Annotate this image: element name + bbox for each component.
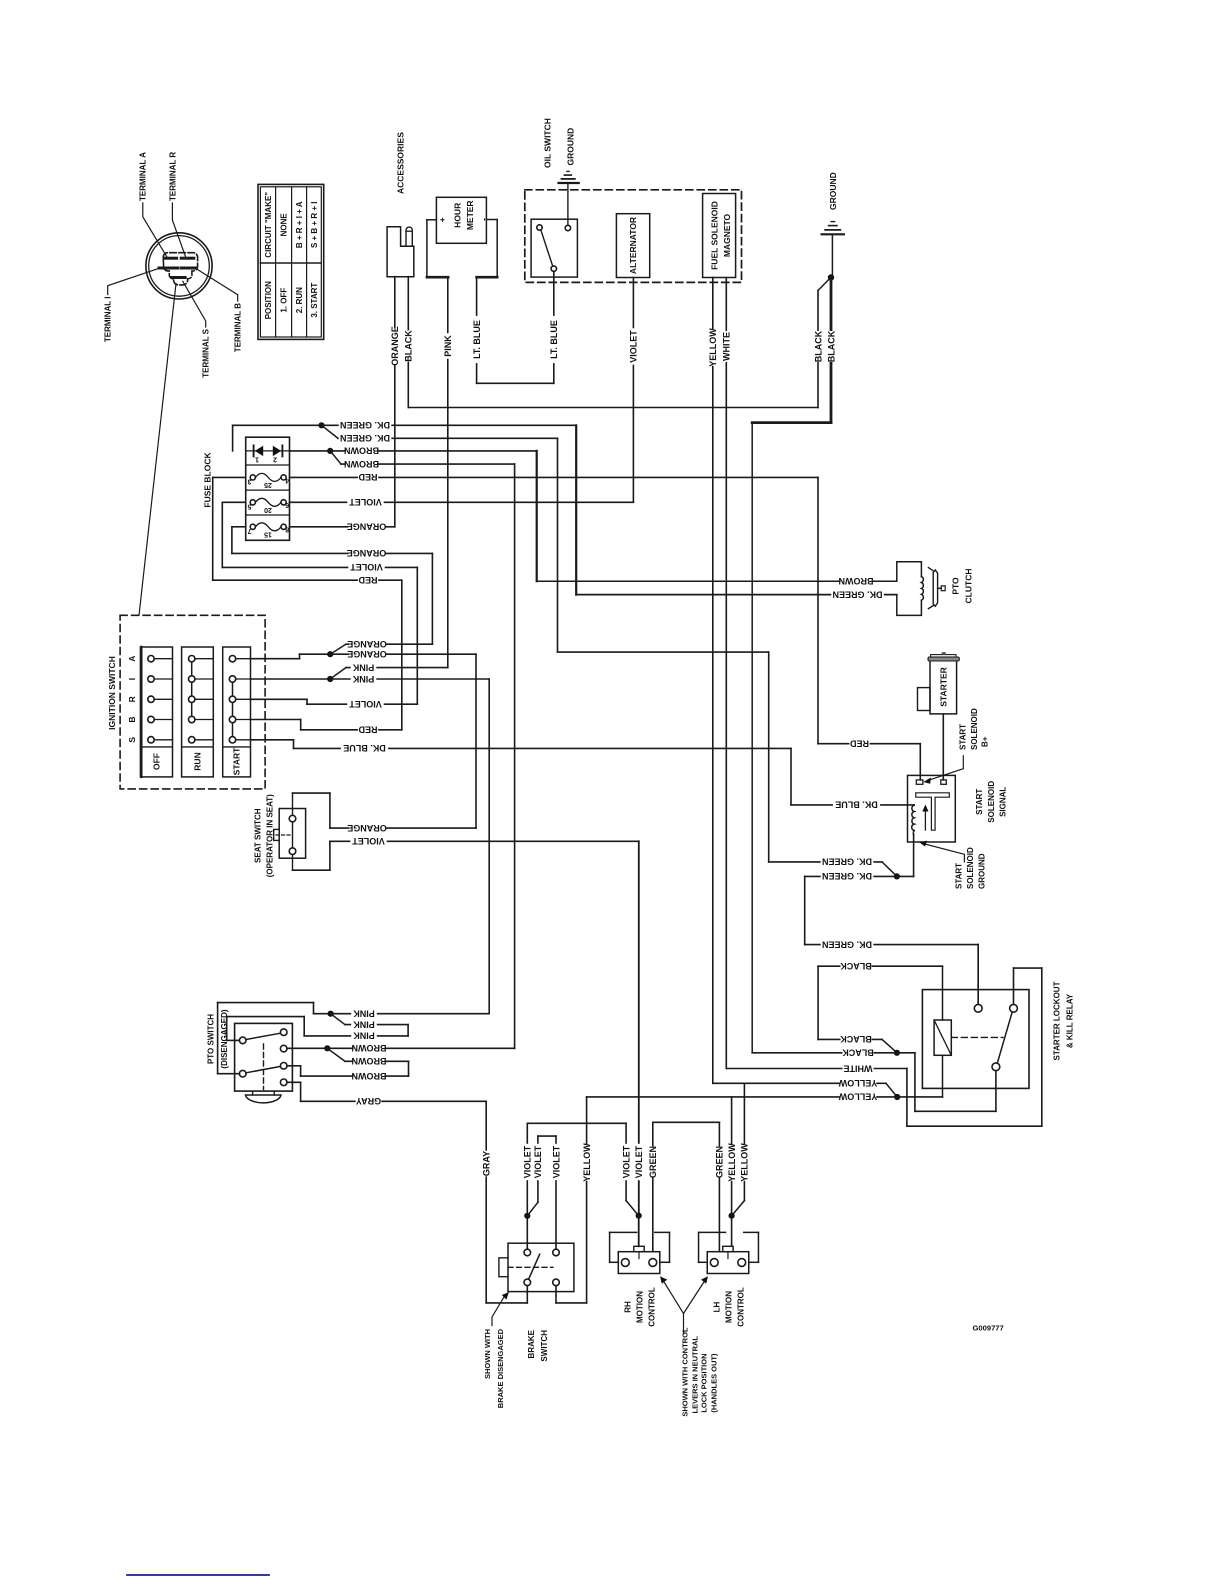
terminal R blade (181, 257, 194, 260)
svg-text:VIOLET: VIOLET (629, 330, 639, 363)
footer rule (127, 1574, 269, 1576)
START circuit connector (232, 679, 234, 740)
svg-text:DK. GREEN: DK. GREEN (822, 857, 872, 867)
svg-text:BLACK: BLACK (813, 330, 823, 362)
svg-text:PTO: PTO (950, 577, 960, 595)
svg-text:+: + (437, 217, 447, 222)
OFF column (140, 647, 172, 777)
svg-text:OIL SWITCH: OIL SWITCH (542, 118, 552, 168)
svg-text:B+: B+ (980, 736, 989, 747)
wire YELLOW fuel solenoid down (712, 278, 714, 1084)
svg-text:GROUND: GROUND (565, 128, 575, 166)
svg-text:B + R + I + A: B + R + I + A (295, 201, 304, 248)
svg-text:YELLOW: YELLOW (838, 1092, 877, 1102)
svg-text:VIOLET: VIOLET (523, 1145, 533, 1178)
wire starter to solenoid (942, 714, 944, 780)
seat switch box (279, 809, 305, 859)
fuse 25A (250, 475, 255, 480)
diode pair row (246, 450, 290, 452)
label TERMINAL A (139, 152, 148, 201)
svg-text:SWITCH: SWITCH (540, 1330, 549, 1362)
svg-text:METER: METER (465, 200, 475, 230)
labels RH / LH motion control (623, 1301, 632, 1313)
svg-text:5: 5 (247, 502, 251, 509)
wire DK. GREEN to solenoid ground junction (769, 861, 882, 863)
wire BROWN diode row (290, 450, 331, 452)
svg-text:R: R (127, 696, 137, 702)
svg-text:20: 20 (264, 506, 272, 513)
svg-text:SIGNAL: SIGNAL (998, 787, 1007, 817)
svg-text:RED: RED (358, 725, 378, 735)
svg-text:ORANGE: ORANGE (347, 639, 387, 649)
wire ORANGE fuse 15A (232, 526, 246, 528)
RUN column (182, 647, 214, 777)
starter side block (918, 688, 931, 711)
svg-text:(OPERATOR IN SEAT): (OPERATOR IN SEAT) (265, 794, 274, 877)
svg-text:WHITE: WHITE (722, 332, 732, 361)
wire PINK ignition I (251, 678, 331, 680)
brake contact BL (524, 1279, 531, 1286)
svg-text:1: 1 (255, 455, 259, 462)
svg-text:BLACK: BLACK (404, 330, 414, 362)
brake contact TR (553, 1249, 560, 1256)
junction black (894, 1050, 900, 1056)
svg-text:CLUTCH: CLUTCH (963, 569, 973, 604)
label TERMINAL S (202, 328, 211, 377)
svg-text:S: S (127, 737, 137, 743)
wire BROWN 2 to PTO switch (330, 451, 341, 464)
svg-text:LH: LH (712, 1301, 721, 1312)
wire WHITE to relay contact B (726, 1068, 907, 1070)
junction brown pto (324, 1045, 330, 1051)
svg-text:PINK: PINK (353, 1019, 375, 1029)
brake switch tab (499, 1258, 508, 1277)
brake switch arm (529, 1254, 540, 1279)
svg-text:BLACK: BLACK (840, 1034, 872, 1044)
svg-text:YELLOW: YELLOW (708, 328, 718, 367)
svg-text:RED: RED (358, 472, 378, 482)
label TERMINAL B (234, 303, 243, 352)
RH motion control (609, 1232, 611, 1262)
svg-text:RUN: RUN (193, 752, 203, 770)
label SEAT SWITCH (OPERATOR IN SEAT) (254, 808, 263, 863)
pto contact L2 (239, 1070, 246, 1077)
svg-text:PINK: PINK (352, 674, 374, 684)
oil switch box (531, 219, 577, 277)
svg-text:RED: RED (850, 738, 870, 748)
svg-text:G009777: G009777 (973, 1324, 1004, 1333)
svg-text:ORANGE: ORANGE (390, 326, 400, 366)
svg-text:VIOLET: VIOLET (551, 1145, 561, 1178)
start solenoid box (908, 775, 956, 842)
svg-text:GRAY: GRAY (481, 1151, 491, 1176)
label START SOLENOID B+ (959, 724, 968, 750)
svg-text:BROWN: BROWN (352, 1071, 387, 1081)
relay contact B (1010, 1004, 1018, 1012)
wire LT. BLUE oil switch (553, 271, 555, 383)
svg-text:GREEN: GREEN (648, 1146, 658, 1178)
hour meter wire bracket (427, 219, 437, 221)
terminal I blade (159, 267, 178, 270)
wire ORANGE accessories to fuse (394, 277, 396, 527)
svg-text:& KILL RELAY: & KILL RELAY (1065, 993, 1074, 1048)
svg-text:CONTROL: CONTROL (647, 1287, 656, 1327)
svg-text:B: B (127, 716, 137, 722)
svg-text:MOTION: MOTION (635, 1291, 644, 1323)
junction yellow (894, 1094, 900, 1100)
relay contact A (974, 1004, 982, 1012)
brake leader + labels (492, 1295, 506, 1326)
junction brown (327, 448, 333, 454)
svg-text:CIRCUIT "MAKE": CIRCUIT "MAKE" (264, 192, 273, 258)
label START SOLENOID GROUND (955, 863, 964, 889)
label TERMINAL I (104, 297, 113, 343)
V leader to note (663, 1280, 684, 1335)
ignition switch dashed box (120, 615, 265, 789)
RUN circuit connector (191, 659, 193, 720)
svg-text:BROWN: BROWN (352, 1043, 387, 1053)
wire PINK pto 2 (331, 1014, 345, 1025)
pto switch button (252, 1091, 254, 1095)
fuse block label (202, 452, 212, 508)
pto switch dashed centerline (263, 1044, 265, 1090)
svg-text:GREEN: GREEN (715, 1146, 725, 1178)
junction rh violet (636, 1213, 642, 1219)
pto bracket L1 (227, 1039, 240, 1041)
LH motion control (698, 1232, 700, 1262)
svg-text:LOCK POSITION: LOCK POSITION (700, 1354, 709, 1413)
svg-text:RH: RH (623, 1301, 632, 1313)
svg-text:POSITION: POSITION (264, 281, 273, 319)
pto arm 2 (246, 1066, 281, 1072)
svg-text:START: START (232, 747, 242, 776)
svg-text:PTO SWITCH: PTO SWITCH (207, 1014, 216, 1064)
svg-text:YELLOW: YELLOW (838, 1078, 877, 1088)
wire DK. BLUE ignition S (251, 739, 294, 741)
terminal A blade (165, 257, 177, 260)
svg-text:BRAKE: BRAKE (527, 1329, 536, 1358)
svg-text:S + B + R + I: S + B + R + I (310, 202, 319, 248)
svg-text:DK. GREEN: DK. GREEN (822, 939, 872, 949)
svg-text:VIOLET: VIOLET (350, 562, 383, 572)
svg-text:BROWN: BROWN (344, 459, 379, 469)
wire GRAY pto (287, 1081, 301, 1083)
wire solenoid ground (912, 831, 915, 836)
leader line from connector to ignition switch box (139, 284, 176, 616)
svg-text:STARTER: STARTER (939, 667, 949, 707)
ignition row letters (127, 656, 137, 662)
pto contact R2 (280, 1045, 287, 1052)
svg-text:SEAT SWITCH: SEAT SWITCH (254, 808, 263, 863)
svg-text:GROUND: GROUND (828, 172, 838, 210)
svg-text:ACCESSORIES: ACCESSORIES (395, 132, 405, 194)
note SHOWN WITH CONTROL LEVERS ... (681, 1327, 690, 1417)
pto arm 1 (246, 1033, 281, 1039)
svg-text:BRAKE DISENGAGED: BRAKE DISENGAGED (496, 1328, 505, 1408)
solenoid coil (912, 805, 914, 830)
svg-text:ORANGE: ORANGE (347, 649, 387, 659)
svg-text:VIOLET: VIOLET (352, 836, 385, 846)
wire BROWN pto 3 (287, 1065, 301, 1067)
relay contact C (992, 1063, 1000, 1071)
svg-text:TERMINAL I: TERMINAL I (104, 297, 113, 343)
fuse 15A (250, 524, 255, 529)
ground above oil switch (567, 183, 569, 225)
wire BLACK relay coil (818, 965, 942, 967)
svg-text:PINK: PINK (443, 335, 453, 357)
seat switch contact top (289, 815, 296, 822)
brake switch box (508, 1243, 574, 1291)
wire PINK pto 3 (304, 1035, 408, 1037)
svg-text:STARTER LOCKOUT: STARTER LOCKOUT (1052, 981, 1061, 1060)
seat switch tab (274, 829, 280, 840)
wire PINK pto 1 (314, 1013, 490, 1015)
svg-text:LT. BLUE: LT. BLUE (549, 320, 559, 359)
svg-text:ALTERNATOR: ALTERNATOR (628, 217, 638, 274)
svg-text:I: I (127, 678, 137, 680)
svg-text:SOLENOID: SOLENOID (970, 708, 979, 750)
svg-text:6: 6 (285, 501, 289, 508)
brake contact BR (553, 1279, 560, 1286)
svg-text:TERMINAL A: TERMINAL A (139, 152, 148, 201)
wire PINK hour meter down (447, 277, 449, 667)
wire WHITE fuel solenoid down (725, 278, 727, 1069)
engine dashed box (525, 190, 742, 283)
svg-text:ORANGE: ORANGE (347, 548, 387, 558)
seat switch wires (293, 792, 330, 794)
svg-text:VIOLET: VIOLET (621, 1145, 631, 1178)
svg-text:ORANGE: ORANGE (347, 522, 387, 532)
svg-text:SOLENOID: SOLENOID (987, 781, 996, 823)
pto clutch body (897, 562, 922, 616)
svg-text:FUSE BLOCK: FUSE BLOCK (202, 452, 212, 508)
pto contact L1 (239, 1037, 246, 1044)
terminal B blade (181, 267, 195, 270)
wire YELLOW long to relay coil (587, 1096, 943, 1098)
wire RED ignition B (251, 719, 301, 721)
svg-text:BROWN: BROWN (839, 576, 874, 586)
svg-text:TERMINAL S: TERMINAL S (202, 328, 211, 377)
wire VIOLET ignition R (251, 698, 308, 700)
fuel solenoid magneto box (703, 194, 736, 278)
svg-text:8: 8 (285, 526, 289, 533)
key-shaped housing outline (163, 253, 197, 285)
label OIL SWITCH (542, 118, 552, 168)
svg-text:2. RUN: 2. RUN (295, 287, 304, 313)
svg-text:A: A (127, 656, 137, 662)
svg-text:TERMINAL B: TERMINAL B (234, 303, 243, 352)
svg-text:3. START: 3. START (310, 283, 319, 318)
svg-text:3: 3 (247, 477, 251, 484)
wire DK. GREEN diode top (232, 425, 234, 451)
wire YELLOW fuel solenoid to junction (713, 1082, 886, 1084)
svg-text:25: 25 (264, 481, 272, 488)
svg-text:7: 7 (247, 527, 251, 534)
svg-text:LT. BLUE: LT. BLUE (472, 320, 482, 359)
svg-text:BLACK: BLACK (842, 1048, 874, 1058)
label GROUND (right) (828, 172, 838, 210)
relay arm (997, 1012, 1012, 1063)
vertical wire labels top (390, 326, 400, 366)
svg-text:YELLOW: YELLOW (582, 1143, 592, 1182)
START column (223, 647, 251, 777)
junction pink pto (328, 1011, 334, 1017)
oil switch arm (541, 231, 553, 266)
pto clutch coil (921, 577, 923, 601)
label PTO CLUTCH (950, 577, 960, 595)
svg-text:MAGNETO: MAGNETO (722, 213, 732, 257)
pto bracket L2 (218, 1073, 240, 1075)
svg-text:BLACK: BLACK (840, 961, 872, 971)
svg-text:YELLOW: YELLOW (727, 1143, 737, 1182)
svg-text:WHITE: WHITE (844, 1063, 873, 1073)
svg-text:PINK: PINK (353, 1031, 375, 1041)
connector circle (ignition switch rear view) (146, 233, 212, 299)
relay dashed actuator line (951, 1036, 1003, 1038)
starter body (930, 660, 957, 714)
pto clutch plates (933, 570, 937, 606)
LH motion control wires (718, 1122, 720, 1251)
svg-text:ORANGE: ORANGE (347, 823, 387, 833)
starter lockout and kill relay box (922, 990, 1029, 1089)
oil switch contact 2 (565, 225, 570, 230)
svg-text:YELLOW: YELLOW (740, 1143, 750, 1182)
label TERMINAL R (168, 152, 177, 201)
svg-text:NONE: NONE (280, 213, 289, 237)
brake wires (526, 1123, 528, 1249)
seat switch dashed link (276, 834, 290, 836)
svg-text:IGNITION SWITCH: IGNITION SWITCH (107, 656, 117, 730)
wire LT. BLUE hour meter (476, 277, 478, 383)
svg-text:BLACK: BLACK (826, 330, 836, 362)
wire BLACK accessories to ground (407, 277, 409, 408)
svg-text:(DISENGAGED): (DISENGAGED) (220, 1009, 229, 1068)
svg-text:VIOLET: VIOLET (349, 699, 382, 709)
brake contact TL (524, 1249, 531, 1256)
pto switch box (235, 1023, 293, 1091)
wire VIOLET alternator down (632, 278, 634, 502)
svg-text:DK. GREEN: DK. GREEN (340, 420, 390, 430)
wire VIOLET fuse 20A (222, 501, 245, 503)
relay coil diagonal (934, 1020, 951, 1055)
svg-text:BROWN: BROWN (344, 446, 379, 456)
fuse block box (246, 437, 290, 540)
svg-text:(HANDLES OUT): (HANDLES OUT) (709, 1353, 718, 1413)
pto contact R3 (280, 1063, 287, 1070)
svg-text:2: 2 (273, 455, 277, 462)
oil switch contact 1 (537, 225, 542, 230)
label STARTER LOCKOUT & KILL RELAY (1052, 981, 1061, 1060)
ground (battery/frame) right (822, 233, 844, 235)
svg-text:VIOLET: VIOLET (634, 1145, 644, 1178)
svg-text:4: 4 (285, 476, 289, 483)
svg-text:RED: RED (358, 575, 378, 585)
solenoid arrow (924, 810, 926, 831)
wire coil top (942, 966, 944, 1020)
label GROUND (oil) (565, 128, 575, 166)
svg-text:MOTION: MOTION (724, 1291, 733, 1323)
position / circuit-make table (258, 184, 324, 339)
terminal S blade (172, 276, 185, 279)
label ACCESSORIES (395, 132, 405, 194)
svg-text:DK. GREEN: DK. GREEN (340, 433, 390, 443)
oil switch contact 3 (551, 266, 556, 271)
svg-text:START: START (975, 789, 984, 815)
label PTO SWITCH (DISENGAGED) (207, 1014, 216, 1064)
svg-text:DK. GREEN: DK. GREEN (822, 871, 872, 881)
svg-text:DK. GREEN: DK. GREEN (832, 589, 882, 599)
junction violet brake (524, 1213, 530, 1219)
fuse 20A (250, 500, 255, 505)
relay contacts (977, 945, 979, 1005)
svg-text:START: START (955, 863, 964, 889)
label START SOLENOID SIGNAL (975, 789, 984, 815)
svg-text:GRAY: GRAY (356, 1096, 381, 1106)
wire BLACK thick ground run (830, 278, 833, 423)
wire coil bottom (942, 1055, 944, 1097)
alternator box (616, 214, 649, 278)
label IGNITION SWITCH (107, 656, 117, 730)
svg-text:DK. BLUE: DK. BLUE (835, 800, 878, 810)
svg-text:TERMINAL R: TERMINAL R (168, 152, 177, 201)
vertical labels motion controls (621, 1144, 631, 1180)
hour meter box (436, 197, 486, 243)
wire ORANGE ignition A (251, 658, 300, 660)
junction ground blacks (828, 274, 834, 280)
wire BROWN pto 1 (287, 1047, 515, 1049)
svg-text:BROWN: BROWN (352, 1056, 387, 1066)
svg-text:FUEL SOLENOID: FUEL SOLENOID (710, 201, 720, 270)
seat switch contact bottom (289, 848, 296, 855)
svg-text:SOLENOID: SOLENOID (966, 847, 975, 889)
wire RED fuse 25A (213, 476, 246, 478)
svg-text:LEVERS IN NEUTRAL: LEVERS IN NEUTRAL (691, 1336, 700, 1414)
svg-text:HOUR: HOUR (453, 203, 463, 228)
ignition contacts and stubs (151, 658, 173, 660)
junction pink (327, 676, 333, 682)
svg-text:VIOLET: VIOLET (349, 497, 382, 507)
RH motion control wires (625, 1123, 627, 1200)
svg-text:PINK: PINK (352, 662, 374, 672)
relay coil (934, 1020, 951, 1055)
junction dk green (318, 422, 324, 428)
pto contact R4 (280, 1079, 287, 1086)
svg-text:GROUND: GROUND (977, 853, 986, 889)
svg-text:VIOLET: VIOLET (533, 1145, 543, 1178)
svg-text:SHOWN WITH: SHOWN WITH (483, 1329, 492, 1379)
solenoid T plunger (916, 793, 950, 830)
junction orange (327, 651, 333, 657)
vertical labels brake group (481, 1151, 491, 1177)
svg-text:1. OFF: 1. OFF (280, 288, 289, 313)
svg-text:PINK: PINK (353, 1008, 375, 1018)
table text (264, 192, 273, 258)
svg-text:CONTROL: CONTROL (736, 1287, 745, 1327)
pto contact R1 (280, 1029, 287, 1036)
junction lh yellow (729, 1213, 735, 1219)
svg-text:DK. BLUE: DK. BLUE (343, 743, 386, 753)
svg-text:START: START (959, 724, 968, 750)
svg-text:SHOWN WITH CONTROL: SHOWN WITH CONTROL (681, 1327, 690, 1417)
wire DK. GREEN 2 (322, 425, 339, 438)
junction solenoid ground (894, 873, 900, 879)
accessories connector (387, 227, 414, 277)
svg-text:OFF: OFF (152, 753, 162, 770)
wire BROWN pto 2 (327, 1048, 345, 1061)
svg-text:15: 15 (264, 530, 272, 537)
wire BLACK ground to relay contact C (752, 1052, 915, 1054)
